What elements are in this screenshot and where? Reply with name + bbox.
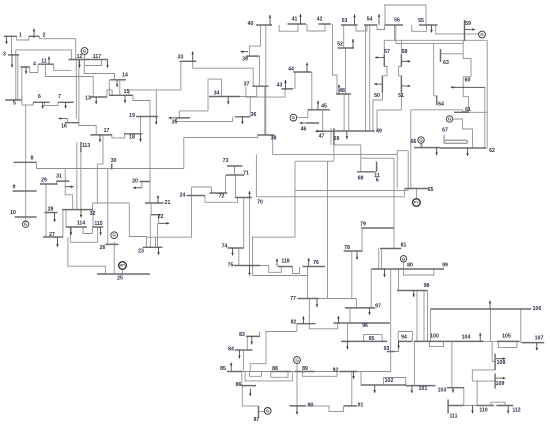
- svg-text:25: 25: [117, 276, 123, 282]
- svg-text:22: 22: [158, 214, 164, 220]
- svg-text:WT: WT: [120, 264, 126, 268]
- svg-text:71: 71: [243, 171, 249, 177]
- svg-text:58: 58: [402, 49, 408, 55]
- svg-text:107: 107: [535, 336, 544, 342]
- svg-text:30: 30: [111, 158, 117, 164]
- svg-text:15: 15: [124, 89, 130, 95]
- svg-text:36: 36: [251, 112, 257, 118]
- svg-text:38: 38: [271, 136, 277, 142]
- svg-text:80: 80: [407, 263, 413, 269]
- svg-text:81: 81: [401, 243, 407, 249]
- svg-text:24: 24: [180, 193, 186, 199]
- svg-text:37: 37: [244, 82, 250, 88]
- svg-text:4: 4: [33, 62, 36, 68]
- svg-text:59: 59: [465, 21, 471, 27]
- svg-text:48: 48: [339, 88, 345, 94]
- svg-text:31: 31: [56, 174, 62, 180]
- svg-text:75: 75: [228, 263, 234, 269]
- svg-text:65: 65: [428, 187, 434, 193]
- svg-text:6: 6: [376, 177, 379, 183]
- svg-text:104: 104: [462, 335, 471, 341]
- svg-text:112: 112: [512, 408, 520, 414]
- svg-text:50: 50: [374, 93, 380, 99]
- svg-text:8: 8: [31, 156, 34, 162]
- svg-text:28: 28: [48, 207, 54, 213]
- svg-text:73: 73: [223, 158, 229, 164]
- svg-text:105: 105: [502, 334, 511, 340]
- svg-text:70: 70: [257, 199, 263, 205]
- svg-text:G: G: [402, 256, 406, 261]
- svg-text:109: 109: [496, 381, 505, 387]
- svg-text:33: 33: [178, 55, 184, 61]
- svg-text:106: 106: [533, 306, 542, 312]
- svg-text:9: 9: [13, 185, 16, 191]
- svg-text:99: 99: [442, 263, 448, 269]
- svg-text:G: G: [292, 115, 296, 120]
- svg-text:110: 110: [479, 408, 487, 414]
- svg-text:46: 46: [301, 127, 307, 133]
- svg-text:115: 115: [94, 221, 102, 227]
- svg-text:101: 101: [419, 386, 428, 392]
- svg-text:82: 82: [291, 320, 297, 326]
- svg-text:27: 27: [49, 232, 55, 238]
- svg-text:54: 54: [367, 17, 373, 23]
- svg-text:60: 60: [465, 78, 471, 84]
- svg-text:84: 84: [228, 347, 234, 353]
- svg-text:34: 34: [214, 91, 220, 97]
- svg-text:92: 92: [333, 368, 339, 374]
- svg-text:G: G: [295, 358, 299, 363]
- svg-text:78: 78: [344, 245, 350, 251]
- svg-text:57: 57: [384, 49, 390, 55]
- svg-text:G: G: [448, 117, 452, 122]
- svg-text:32: 32: [90, 211, 96, 217]
- svg-text:52: 52: [337, 42, 343, 48]
- svg-text:G: G: [480, 32, 484, 37]
- svg-text:90: 90: [308, 403, 314, 409]
- svg-text:76: 76: [313, 260, 319, 266]
- svg-text:11: 11: [41, 59, 47, 65]
- svg-text:79: 79: [360, 222, 366, 228]
- svg-text:PV: PV: [414, 201, 419, 205]
- svg-text:86: 86: [236, 382, 242, 388]
- svg-text:12: 12: [77, 54, 83, 60]
- svg-text:16: 16: [61, 124, 67, 130]
- svg-text:74: 74: [222, 244, 228, 250]
- svg-text:94: 94: [401, 335, 407, 341]
- svg-text:45: 45: [321, 104, 327, 110]
- svg-text:85: 85: [220, 366, 226, 372]
- svg-text:55: 55: [418, 18, 424, 24]
- svg-text:21: 21: [165, 200, 171, 206]
- svg-text:6: 6: [38, 94, 41, 100]
- svg-text:56: 56: [394, 18, 400, 24]
- svg-text:111: 111: [449, 414, 457, 420]
- svg-text:23: 23: [138, 249, 144, 255]
- svg-text:91: 91: [358, 403, 364, 409]
- svg-text:83: 83: [239, 332, 245, 338]
- svg-text:29: 29: [41, 178, 47, 184]
- svg-text:93: 93: [384, 346, 390, 352]
- svg-text:35: 35: [172, 120, 178, 126]
- svg-text:98: 98: [424, 283, 430, 289]
- svg-text:10: 10: [10, 210, 16, 216]
- svg-text:39: 39: [242, 57, 248, 63]
- svg-text:67: 67: [442, 128, 448, 134]
- svg-text:96: 96: [362, 323, 368, 329]
- svg-text:13: 13: [85, 96, 91, 102]
- svg-text:72: 72: [219, 194, 225, 200]
- svg-text:49: 49: [376, 129, 382, 135]
- svg-text:41: 41: [292, 17, 298, 23]
- svg-text:20: 20: [132, 179, 138, 185]
- svg-text:77: 77: [290, 296, 296, 302]
- svg-text:7: 7: [58, 94, 61, 100]
- svg-text:113: 113: [82, 143, 90, 149]
- svg-text:117: 117: [93, 54, 101, 60]
- svg-text:47: 47: [319, 134, 325, 140]
- svg-text:2: 2: [43, 33, 46, 39]
- svg-text:3: 3: [3, 52, 6, 58]
- svg-text:97: 97: [375, 304, 381, 310]
- svg-text:26: 26: [100, 245, 106, 251]
- svg-text:G: G: [419, 138, 423, 143]
- svg-text:G: G: [112, 233, 116, 238]
- svg-text:103: 103: [438, 388, 447, 394]
- svg-text:108: 108: [497, 360, 506, 366]
- svg-text:G: G: [266, 408, 270, 413]
- svg-text:1: 1: [19, 33, 22, 39]
- svg-text:114: 114: [77, 221, 85, 227]
- svg-text:87: 87: [254, 417, 260, 423]
- svg-text:43: 43: [277, 83, 283, 89]
- svg-text:102: 102: [385, 378, 394, 384]
- svg-text:89: 89: [302, 366, 308, 372]
- svg-text:68: 68: [358, 176, 364, 182]
- svg-text:17: 17: [104, 128, 110, 134]
- svg-text:14: 14: [122, 73, 128, 79]
- svg-text:5: 5: [13, 101, 16, 107]
- svg-text:63: 63: [443, 60, 449, 66]
- svg-text:19: 19: [129, 113, 135, 119]
- svg-text:88: 88: [272, 366, 278, 372]
- svg-text:G: G: [24, 222, 28, 227]
- svg-text:61: 61: [465, 107, 471, 113]
- svg-text:44: 44: [288, 67, 294, 73]
- svg-text:100: 100: [430, 334, 439, 340]
- svg-text:G: G: [83, 49, 87, 54]
- svg-text:53: 53: [342, 18, 348, 24]
- svg-text:118: 118: [281, 259, 289, 265]
- svg-text:66: 66: [411, 139, 417, 145]
- svg-text:64: 64: [438, 102, 444, 108]
- svg-text:42: 42: [317, 17, 323, 23]
- svg-text:69: 69: [334, 136, 340, 142]
- svg-text:40: 40: [248, 21, 254, 27]
- svg-text:95: 95: [369, 336, 375, 342]
- svg-text:62: 62: [489, 148, 495, 154]
- svg-text:51: 51: [398, 93, 404, 99]
- svg-text:18: 18: [129, 135, 135, 141]
